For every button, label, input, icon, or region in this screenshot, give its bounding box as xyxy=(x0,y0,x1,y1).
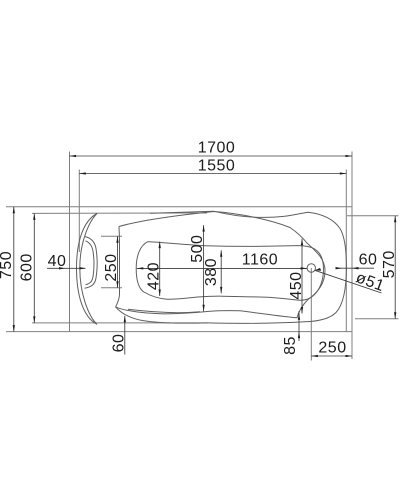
svg-text:250: 250 xyxy=(103,253,120,281)
svg-text:1700: 1700 xyxy=(198,139,236,156)
svg-text:750: 750 xyxy=(0,251,15,279)
svg-text:1550: 1550 xyxy=(198,158,236,175)
svg-text:600: 600 xyxy=(19,253,36,281)
svg-text:60: 60 xyxy=(359,251,378,268)
svg-text:40: 40 xyxy=(48,253,67,270)
svg-text:60: 60 xyxy=(110,334,127,353)
svg-text:570: 570 xyxy=(381,250,398,278)
svg-text:85: 85 xyxy=(282,336,299,355)
svg-text:450: 450 xyxy=(288,271,305,299)
svg-text:250: 250 xyxy=(318,340,346,357)
svg-text:380: 380 xyxy=(203,258,220,286)
svg-text:1160: 1160 xyxy=(242,251,278,268)
svg-text:420: 420 xyxy=(146,262,163,290)
